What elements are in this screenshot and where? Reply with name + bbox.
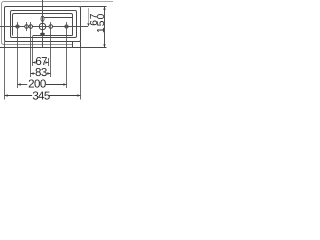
svg-text:0: 0	[40, 78, 46, 90]
svg-text:3: 3	[41, 67, 47, 79]
svg-text:5: 5	[44, 90, 50, 102]
svg-text:0: 0	[96, 13, 107, 19]
svg-text:7: 7	[41, 56, 47, 68]
svg-text:1: 1	[96, 27, 107, 33]
svg-text:5: 5	[96, 20, 107, 26]
